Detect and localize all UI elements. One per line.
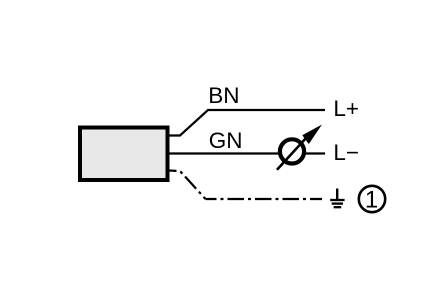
- svg-text:GN: GN: [209, 128, 243, 153]
- svg-text:L−: L−: [333, 140, 359, 165]
- svg-text:L+: L+: [333, 96, 359, 121]
- svg-text:BN: BN: [208, 83, 239, 108]
- svg-text:1: 1: [365, 187, 378, 214]
